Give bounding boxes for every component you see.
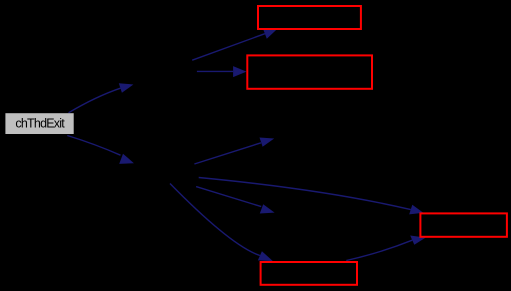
- wire node5 to box3 (long curve): [199, 178, 411, 210]
- arrowhead into box2: [233, 66, 246, 77]
- box4 truncated node (red, bottom): [261, 262, 357, 285]
- arrowhead into box1: [263, 29, 278, 39]
- wire box4 to box3 (curved): [346, 240, 412, 260]
- box2 truncated node (red, two-line): [247, 55, 372, 88]
- wire chThdExit to node2: [69, 88, 121, 113]
- arrowhead into node4: [260, 204, 275, 213]
- arrowhead into node5: [119, 154, 134, 164]
- arrowhead into box4: [258, 251, 273, 261]
- box3 truncated node (red, right): [420, 213, 507, 236]
- wire chThdExit to node5: [67, 136, 120, 156]
- node chThdExit (current node, gray): [5, 113, 73, 134]
- arrowhead into node3: [260, 138, 275, 147]
- arrowhead into node2: [119, 83, 134, 93]
- arrowhead into box3 bottom: [410, 236, 425, 245]
- box1 truncated node (red): [258, 6, 361, 29]
- wire node5 to node3: [194, 143, 261, 164]
- arrowhead into box3 top: [409, 205, 423, 215]
- wire node5 to node4: [196, 187, 261, 207]
- wire node5 to box4 (curved): [170, 184, 260, 256]
- wire node2 to box1: [192, 34, 265, 61]
- svg-text:chThdExit: chThdExit: [15, 116, 65, 130]
- wire node2 to box2: [197, 70, 233, 72]
